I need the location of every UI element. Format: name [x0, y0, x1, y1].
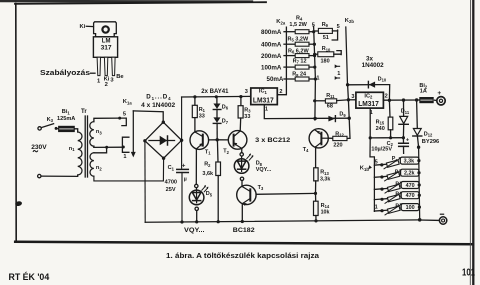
- svg-text:D6: D6: [222, 104, 229, 110]
- K1b stub P1: [374, 164, 386, 165]
- svg-text:D8: D8: [256, 161, 263, 167]
- wire bridge plus riser to top rail: [181, 97, 183, 168]
- pin 2 leg: [104, 57, 107, 75]
- node D9/R12 column: [348, 117, 351, 120]
- svg-text:10k: 10k: [321, 210, 330, 216]
- node IC2 pin3: [347, 98, 350, 101]
- node bus R6: [313, 54, 316, 57]
- node bus P3: [418, 183, 421, 186]
- svg-text:D12: D12: [424, 131, 433, 137]
- wire R1 to T1 collector: [194, 118, 196, 132]
- node bus R4: [312, 30, 315, 33]
- svg-text:IC2: IC2: [364, 93, 373, 99]
- node stub P4: [380, 198, 383, 201]
- resistor R8 body: [295, 77, 309, 81]
- svg-text:D1...D4: D1...D4: [146, 93, 171, 100]
- fuse Bi1 body: [59, 126, 75, 131]
- svg-text:LM317: LM317: [253, 98, 274, 105]
- svg-text:4700: 4700: [165, 180, 177, 186]
- wire R11 to IC2 pin3 node: [337, 99, 349, 102]
- K2a row stub 400mA: [284, 43, 295, 45]
- K1b P-chain right bus: [419, 147, 420, 220]
- resistor R13 body: [314, 168, 318, 181]
- K2a row stub 200mA: [284, 55, 295, 57]
- pin 1 leg: [97, 57, 100, 75]
- svg-text:317: 317: [101, 45, 112, 52]
- value box P2 2,2k: [401, 169, 419, 176]
- node bus R7: [313, 66, 316, 69]
- K2b contact 5 hook: [332, 30, 337, 40]
- svg-text:T2: T2: [223, 149, 229, 155]
- IC2 LM317 box: [356, 92, 384, 108]
- K1b stub P5: [374, 209, 387, 212]
- value box P5 100: [401, 204, 419, 211]
- svg-text:51: 51: [323, 35, 329, 41]
- svg-text:R10: R10: [322, 46, 331, 52]
- node K1a contact1 dot: [122, 146, 125, 149]
- resistor R12 body: [333, 136, 347, 140]
- transistor T3: [237, 185, 256, 204]
- node K1a contact5 dot: [118, 117, 121, 120]
- svg-text:200mA: 200mA: [261, 53, 282, 60]
- svg-text:BY296: BY296: [422, 139, 439, 145]
- frame top: [15, 2, 266, 4]
- svg-text:Tr: Tr: [81, 109, 87, 115]
- node rail T3: [241, 220, 244, 223]
- wire fuse to n1 top: [74, 129, 77, 132]
- wire IC1 pin2 to K2a common riser: [277, 27, 286, 95]
- wire R7 to bus: [309, 66, 315, 68]
- node stub P3: [380, 188, 383, 191]
- svg-text:1: 1: [265, 106, 268, 112]
- secondary winding n2: [90, 153, 94, 176]
- node R15 bottom: [389, 136, 392, 139]
- wire bridge minus to ground rail: [144, 141, 146, 223]
- primary winding n1: [78, 132, 82, 175]
- svg-text:K2a: K2a: [276, 19, 286, 25]
- wire D12 to P-chain bus: [417, 136, 418, 147]
- svg-text:1,5 2W: 1,5 2W: [289, 22, 307, 28]
- wire n2 bottom to bridge AC bottom: [94, 158, 164, 181]
- svg-text:n3: n3: [96, 129, 102, 135]
- frame left ink blob: [15, 201, 23, 207]
- svg-text:R1: R1: [199, 107, 206, 113]
- K1a contact 1 hook: [122, 137, 128, 152]
- node D6 top: [215, 95, 218, 98]
- C2 leads: [402, 138, 404, 154]
- capacitor C1 plate bottom: [177, 172, 189, 174]
- K1a contact 5 hook: [120, 118, 127, 126]
- wire R2 to ground rail: [217, 176, 219, 222]
- K1b wiper arrow mark: [368, 165, 372, 169]
- svg-text:3: 3: [351, 94, 354, 100]
- svg-text:P5: P5: [395, 204, 402, 210]
- pot P2 body: [387, 172, 400, 179]
- svg-text:800mA: 800mA: [261, 29, 282, 36]
- frame left: [15, 4, 17, 242]
- svg-text:25V: 25V: [166, 187, 176, 193]
- svg-text:K1b: K1b: [360, 165, 370, 171]
- wire IC2 pin2 out: [383, 99, 419, 101]
- pot P4 body: [387, 194, 400, 201]
- svg-text:R2: R2: [204, 162, 211, 168]
- svg-text:D5: D5: [206, 191, 213, 197]
- diode D9: [328, 116, 335, 122]
- node bus P5: [418, 206, 421, 209]
- svg-text:D11: D11: [401, 109, 410, 115]
- svg-text:P3: P3: [395, 182, 402, 188]
- K1a wiper line with arrow: [132, 111, 134, 152]
- D5 emission arrows: [202, 186, 208, 192]
- svg-text:220: 220: [333, 143, 342, 149]
- wire D10 row: [348, 85, 390, 101]
- node C2/D11: [402, 136, 405, 139]
- wire rail to D6: [216, 97, 218, 104]
- svg-text:3,6k: 3,6k: [202, 171, 214, 177]
- svg-text:33: 33: [244, 114, 250, 120]
- svg-text:1N4002: 1N4002: [362, 62, 385, 69]
- resistor R14 body: [314, 201, 319, 215]
- wire T4 to R12: [328, 137, 333, 139]
- wire R4 to bus: [309, 31, 314, 33]
- IC1 LM317 box: [251, 88, 277, 105]
- wire rail to R1: [194, 97, 196, 105]
- svg-text:2: 2: [279, 89, 282, 95]
- resistor R1 body: [192, 105, 197, 117]
- K2b wiper arrow mark: [337, 65, 340, 67]
- node bus R8: [314, 77, 317, 80]
- svg-text:5: 5: [337, 24, 340, 30]
- transistor T4: [309, 129, 328, 148]
- fuse Bi2 body: [420, 98, 433, 103]
- node stub P1: [380, 163, 383, 166]
- switch K3 contact dot: [55, 127, 58, 130]
- svg-text:2x BAY41: 2x BAY41: [201, 89, 229, 95]
- svg-text:IC1: IC1: [259, 89, 268, 95]
- wire rail to R3: [240, 97, 242, 106]
- wire bus to R9: [314, 30, 319, 32]
- diode D7: [213, 117, 220, 122]
- pot P3 wiper arrow: [385, 183, 401, 194]
- transistor T1: [190, 131, 209, 150]
- svg-text:R3: R3: [244, 107, 251, 113]
- node bus R10: [313, 53, 316, 56]
- K2a row stub 800mA: [284, 31, 295, 33]
- resistor R15 riser: [388, 100, 391, 117]
- Ki tab pointer line: [86, 25, 93, 27]
- svg-text:R14: R14: [321, 203, 330, 209]
- svg-text:33: 33: [199, 114, 205, 120]
- node bridge bottom vertex: [162, 157, 165, 160]
- svg-text:BC182: BC182: [233, 227, 255, 234]
- svg-text:1. ábra. A töltőkészülék kapcs: 1. ábra. A töltőkészülék kapcsolási rajz…: [166, 253, 319, 260]
- svg-text:RT ÉK '04: RT ÉK '04: [9, 272, 50, 282]
- wire K1a wiper to bridge AC top: [133, 111, 163, 122]
- wire IC1 pin1 ADJ line: [264, 105, 349, 119]
- node D12 top: [415, 98, 418, 101]
- transformer core line left: [84, 116, 86, 177]
- D5 bottom lead circle: [195, 207, 198, 210]
- value box P4 470: [401, 192, 419, 199]
- svg-text:VQY...: VQY...: [256, 167, 272, 173]
- node R1 top: [193, 95, 196, 98]
- wire T2 emitter to D8: [241, 148, 243, 152]
- svg-text:1: 1: [337, 71, 340, 77]
- diode D12: [413, 129, 421, 136]
- transformer core line right: [87, 116, 89, 177]
- capacitor C2 plates: [399, 143, 409, 146]
- svg-text:+: +: [406, 138, 409, 144]
- bridge inner diode line: [149, 140, 175, 142]
- page right edge thin line: [469, 0, 471, 285]
- wire n3-n2 tap jog: [94, 146, 107, 153]
- wire R11 row: [315, 100, 326, 102]
- Szabalyozas pointer dash: [91, 72, 95, 74]
- wire R8 to bus: [309, 78, 315, 80]
- wire D5 to ground rail: [196, 211, 198, 222]
- resistor R6 body: [295, 54, 309, 58]
- page right edge thick line: [472, 0, 474, 285]
- svg-text:n1: n1: [69, 146, 75, 152]
- svg-text:R12: R12: [335, 131, 344, 137]
- pot P4 wiper arrow: [385, 193, 401, 204]
- svg-text:5: 5: [312, 22, 315, 28]
- pot P1 wiper arrow: [384, 158, 400, 169]
- D5 top lead circle: [195, 184, 198, 187]
- svg-text:T4: T4: [303, 147, 309, 153]
- node bridge right vertex: [180, 139, 183, 142]
- node bus ground rail: [418, 218, 422, 222]
- svg-text:3,3k: 3,3k: [320, 177, 330, 183]
- wire IC2 pin1 to K1b wiper: [370, 138, 374, 212]
- pot P1 body: [386, 160, 399, 167]
- node bus R5: [313, 43, 316, 46]
- switch K3 lever: [41, 124, 53, 128]
- svg-text:D9: D9: [339, 112, 346, 118]
- pot P5 wiper arrow: [385, 204, 401, 215]
- node bus P1: [417, 159, 420, 162]
- wire node to R14: [315, 193, 317, 201]
- node K2b wiper / D10: [346, 83, 349, 86]
- wire R3 to T2 collector: [239, 118, 242, 131]
- svg-text:2: 2: [385, 94, 388, 100]
- node rail C1: [180, 220, 183, 223]
- wire base node to R2: [216, 140, 219, 162]
- mains terminal upper: [38, 127, 41, 130]
- svg-text:2,2k: 2,2k: [404, 171, 415, 177]
- svg-text:5: 5: [123, 111, 126, 117]
- wire bus to R10: [315, 53, 318, 55]
- svg-text:LM317: LM317: [358, 101, 379, 108]
- mains terminal lower: [38, 174, 41, 177]
- svg-text:D7: D7: [222, 119, 229, 125]
- D8 bottom lead circle: [240, 177, 243, 180]
- wire D11 top lead: [403, 100, 405, 116]
- svg-text:10µ/25V: 10µ/25V: [371, 146, 392, 152]
- wire R6 to bus: [309, 55, 315, 57]
- bridge inner diode bar: [167, 136, 169, 145]
- svg-text:R9: R9: [322, 22, 329, 28]
- svg-text:C1: C1: [168, 165, 175, 171]
- wire R9 to K2b contact 5: [332, 30, 337, 32]
- svg-text:68: 68: [327, 104, 333, 110]
- wire R15 to ADJ row: [390, 130, 392, 138]
- svg-text:Bi1: Bi1: [62, 109, 71, 115]
- wire R14 to ground rail: [315, 216, 317, 222]
- resistor R5 body: [295, 42, 309, 46]
- K2b contact 1 mark: [337, 77, 340, 79]
- K1b stub P2: [374, 176, 387, 177]
- svg-text:P4: P4: [395, 192, 402, 198]
- value box P3 470: [401, 182, 419, 189]
- svg-text:Be: Be: [116, 74, 124, 80]
- svg-text:100mA: 100mA: [261, 64, 282, 71]
- minus sign: [440, 213, 443, 215]
- node bus/R11: [313, 99, 316, 102]
- wire K3 to fuse: [56, 128, 59, 130]
- svg-text:+: +: [437, 90, 441, 97]
- secondary winding n3: [90, 122, 94, 147]
- svg-text:3 x BC212: 3 x BC212: [255, 137, 290, 144]
- K2a row stub 100mA: [284, 66, 295, 68]
- svg-text:Szabályozás: Szabályozás: [40, 70, 90, 77]
- bridge rectifier D1-D4 diamond: [145, 122, 182, 158]
- svg-text:+: +: [182, 163, 186, 169]
- svg-text:1: 1: [316, 76, 319, 82]
- D8 emission arrows: [247, 155, 253, 161]
- node bridge top vertex: [162, 121, 165, 124]
- svg-text:T1: T1: [205, 149, 211, 155]
- node D11 top: [402, 98, 405, 101]
- svg-text:K1a: K1a: [123, 99, 133, 105]
- page top edge smudge: [0, 0, 252, 3]
- LED D8: [234, 159, 249, 174]
- node stub P2: [380, 175, 383, 178]
- regulator package body LM317: [93, 37, 117, 58]
- ground rail: [145, 220, 420, 222]
- K2a right bus: [314, 26, 316, 120]
- svg-text:50mA: 50mA: [267, 76, 284, 83]
- node bus P4: [418, 194, 421, 197]
- wire T3 base to R13/R14 node: [256, 192, 315, 195]
- resistor R7 body: [295, 65, 309, 69]
- svg-text:P2: P2: [395, 169, 402, 175]
- ADJ row wire pin1-R15-C2: [370, 108, 403, 138]
- node T1/T2 base D7 junction: [216, 138, 219, 141]
- svg-text:230V: 230V: [31, 144, 47, 151]
- node R13/R14/T3: [314, 192, 317, 195]
- svg-text:D10: D10: [378, 76, 387, 82]
- svg-text:K2b: K2b: [345, 18, 355, 24]
- svg-text:101: 101: [462, 267, 475, 278]
- wire T1 emitter down: [195, 149, 197, 184]
- value box P1 3,3k: [400, 157, 419, 164]
- K1b stub P4: [374, 199, 387, 200]
- svg-text:1: 1: [123, 154, 126, 160]
- svg-text:µ: µ: [184, 177, 187, 183]
- svg-text:R5 3,2W: R5 3,2W: [288, 36, 309, 42]
- diode D11: [400, 116, 408, 123]
- wire fuse to + terminal: [435, 99, 437, 101]
- wire base node to T2: [217, 139, 228, 141]
- node stub P5: [380, 209, 383, 212]
- svg-text:470: 470: [406, 193, 415, 199]
- pot P2 wiper arrow: [385, 170, 401, 181]
- resistor R10 body: [318, 52, 334, 57]
- frame bottom: [15, 242, 473, 244]
- svg-text:K3: K3: [47, 117, 54, 123]
- wire D12 top lead: [416, 100, 419, 128]
- output terminal +: [437, 97, 445, 105]
- svg-text:R8 24: R8 24: [292, 72, 307, 78]
- wire bus to - terminal: [420, 219, 440, 221]
- diode D10: [369, 82, 375, 88]
- svg-text:4 x 1N4002: 4 x 1N4002: [141, 102, 176, 109]
- capacitor C1 plate top: [177, 168, 189, 170]
- pin 3 leg: [112, 57, 115, 75]
- wire R5 to bus: [309, 43, 314, 45]
- wire n3 top to K1a contact 5: [94, 118, 120, 122]
- pot P5 body: [387, 206, 400, 213]
- node rail R14: [314, 219, 317, 222]
- diode D6: [213, 104, 220, 109]
- svg-text:P1: P1: [392, 156, 399, 162]
- svg-text:R11: R11: [326, 93, 335, 99]
- wire R10 to K2b contact: [334, 51, 341, 55]
- node IC2 pin2: [388, 99, 391, 102]
- node rail R2: [217, 220, 220, 223]
- wire K2b node down through pin3 node to R12: [347, 85, 350, 139]
- resistor R2 body: [216, 162, 221, 176]
- svg-text:3: 3: [245, 89, 248, 95]
- LED D5: [189, 190, 204, 205]
- node D12 / bus top: [417, 146, 420, 149]
- svg-text:2: 2: [105, 82, 108, 88]
- svg-text:470: 470: [406, 183, 415, 189]
- resistor R4 body: [295, 30, 309, 34]
- svg-text:1: 1: [375, 205, 378, 211]
- wire T4 emitter to R13: [315, 147, 317, 168]
- svg-text:R13: R13: [320, 170, 329, 176]
- node ADJ/bus: [313, 117, 316, 120]
- wire D7 to base node: [216, 123, 218, 139]
- wire pin3 node to IC2: [348, 99, 356, 101]
- svg-text:3,3k: 3,3k: [404, 159, 415, 165]
- node R3 top: [239, 95, 242, 98]
- wire D8 to T3 collector: [241, 181, 243, 187]
- svg-text:R15: R15: [376, 119, 385, 125]
- K2a row stub 50mA: [284, 78, 295, 80]
- resistor R15 body: [388, 117, 393, 130]
- svg-text:n2: n2: [96, 165, 102, 171]
- wire T3 emitter to ground rail: [241, 204, 243, 222]
- pot P3 body: [387, 184, 400, 191]
- output terminal -: [439, 217, 446, 224]
- svg-text:Ki: Ki: [80, 24, 86, 30]
- K2b wiper line: [346, 27, 348, 85]
- svg-text:100: 100: [406, 205, 415, 211]
- svg-text:1A: 1A: [420, 89, 427, 95]
- label ~: [33, 151, 38, 152]
- top rail wire: [182, 95, 251, 98]
- node bridge left vertex: [143, 139, 146, 142]
- wire D11 to node: [402, 124, 404, 137]
- wire C1 bottom to ground rail: [181, 173, 183, 223]
- svg-text:VQY...: VQY...: [184, 227, 205, 234]
- svg-text:R7 12: R7 12: [293, 58, 307, 64]
- resistor R11 body: [325, 99, 336, 103]
- wire n1 bottom to lower terminal: [41, 175, 78, 176]
